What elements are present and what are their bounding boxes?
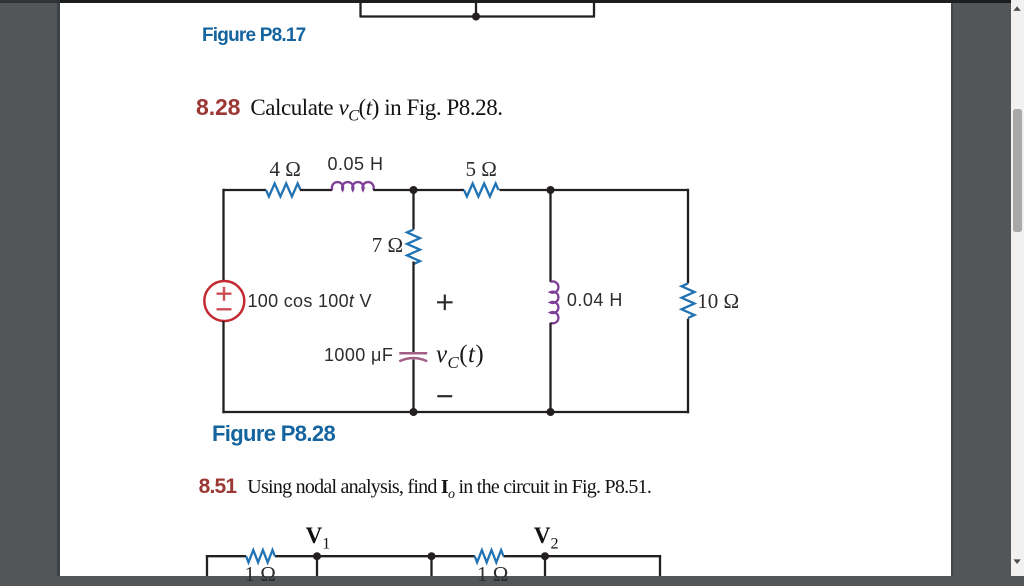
scrollbar thumb <box>1013 109 1023 232</box>
label plus polarity of vC <box>437 295 453 311</box>
problem 8.51 heading <box>199 475 652 503</box>
wire: bottom wire of P8.17 box <box>360 15 596 17</box>
value label 100 cos 100t V <box>248 292 372 310</box>
source VS 100cos100t circle <box>204 281 244 321</box>
value label R1 1 ohm (cut off) <box>245 564 276 585</box>
wire: right branch above 10ohm <box>687 189 689 284</box>
wire: P8.51 left end vertical <box>206 556 208 576</box>
capacitor C 1000uF top plate <box>399 352 427 355</box>
wire: P8.51 top wire right segment <box>503 555 661 557</box>
value label 0.05 H <box>328 155 384 173</box>
inductor L 0.04H (vertical, bumps right) <box>551 282 559 324</box>
caption Figure P8.17 <box>202 26 305 45</box>
wire: top wire between 4ohm and inductor <box>300 189 332 191</box>
wire: left branch below source <box>222 321 224 413</box>
wire: left branch above source <box>222 189 224 281</box>
source minus sign <box>217 308 232 310</box>
value label 10 ohm <box>697 291 739 312</box>
wire: middle vertical of P8.17 box <box>475 1 477 17</box>
wire: top wire left segment <box>224 189 267 191</box>
wire: top wire right segment <box>500 189 689 191</box>
wire: P8.51 branch below node V2 <box>544 556 546 576</box>
wire: top wire between inductor and node A <box>373 189 464 191</box>
node: junction dot on P8.17 bottom wire <box>472 13 480 21</box>
wire: middle branch 1 below capacitor <box>412 360 414 414</box>
wire: P8.51 branch below node V1 <box>316 556 318 576</box>
viewer top border line over page <box>60 0 1012 3</box>
wire: right vertical of P8.17 box <box>593 1 595 17</box>
wire: bottom wire <box>222 411 689 413</box>
node A: junction of top wire and 7ohm branch <box>410 186 418 194</box>
value label 0.04 H <box>567 291 623 309</box>
resistor R 10ohm (vertical) <box>682 283 695 318</box>
wire: P8.51 right end vertical <box>659 556 661 576</box>
node D: junction of bottom wire and 0.04H branch <box>547 408 555 416</box>
scrollbar track <box>1011 0 1024 576</box>
value label R2 1 ohm (cut off) <box>477 564 508 585</box>
wire: middle branch 2 below 0.04H <box>549 323 551 413</box>
node V2 junction dot <box>541 552 549 560</box>
wire: middle branch 1 above 7ohm <box>412 190 414 230</box>
wire: middle branch 2 above 0.04H <box>549 190 551 282</box>
wire: P8.51 middle branch <box>430 556 432 576</box>
wire: P8.51 top wire middle segment <box>275 555 475 557</box>
resistor R2 1ohm <box>475 550 504 562</box>
value label 7 ohm <box>372 235 403 256</box>
label vC(t) <box>436 342 484 371</box>
value label 5 ohm <box>466 159 497 180</box>
viewer top border line over sidebar <box>0 0 60 3</box>
resistor R 4ohm <box>266 184 301 197</box>
label minus polarity of vC <box>437 395 452 397</box>
page left shadow edge <box>57 0 60 576</box>
page right shadow edge <box>951 0 953 576</box>
node: P8.51 middle junction dot <box>428 552 436 560</box>
node B: junction of top wire and 0.04H branch <box>547 186 555 194</box>
caption Figure P8.28 <box>212 423 335 445</box>
capacitor C 1000uF curved plate <box>399 358 427 361</box>
source plus sign <box>217 287 232 301</box>
wire: left vertical of P8.17 box <box>359 1 361 17</box>
wire: middle branch 1 between 7ohm and capacitor <box>412 262 414 353</box>
node C: junction of bottom wire and capacitor branch <box>410 408 418 416</box>
resistor R 7ohm (vertical) <box>407 230 420 265</box>
problem 8.28 heading <box>196 94 503 126</box>
scrollbar down arrow <box>1010 556 1024 576</box>
resistor R 5ohm <box>464 184 499 197</box>
node label V2 <box>534 524 559 553</box>
node V1 junction dot <box>313 552 321 560</box>
wire: P8.51 top wire left segment <box>206 555 246 557</box>
resistor R1 1ohm <box>246 550 275 562</box>
inductor L 0.05H <box>332 182 374 190</box>
node label V1 <box>306 524 331 553</box>
value label 4 ohm <box>270 159 301 180</box>
value label 1000 uF <box>324 346 393 364</box>
scrollbar up arrow <box>1010 0 1024 20</box>
wire: right branch below 10ohm <box>687 319 689 414</box>
